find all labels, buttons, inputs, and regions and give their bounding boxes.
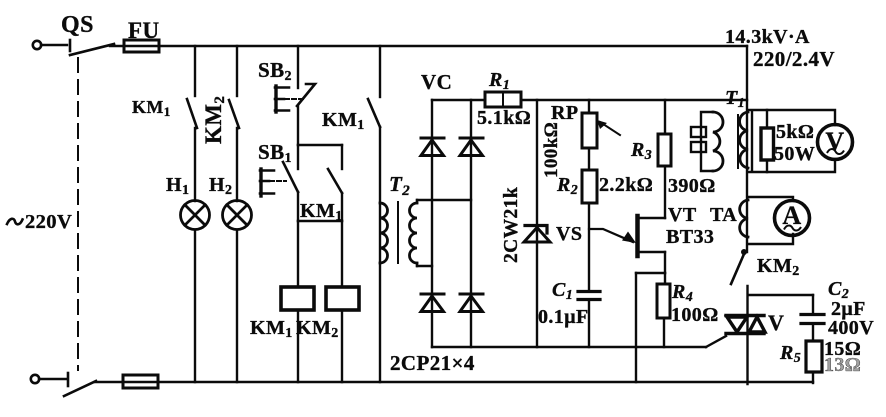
svg-text:100Ω: 100Ω bbox=[671, 304, 719, 326]
svg-text:KM1: KM1 bbox=[322, 109, 365, 133]
svg-text:R4: R4 bbox=[671, 281, 693, 305]
svg-text:2CW21k: 2CW21k bbox=[501, 187, 522, 263]
svg-text:TA: TA bbox=[710, 204, 737, 226]
svg-text:T2: T2 bbox=[389, 172, 410, 199]
svg-text:C1: C1 bbox=[552, 279, 573, 303]
svg-text:A: A bbox=[782, 201, 801, 230]
svg-text:14.3kV·A: 14.3kV·A bbox=[725, 26, 810, 48]
svg-text:50W: 50W bbox=[774, 143, 815, 165]
svg-text:220V: 220V bbox=[25, 211, 72, 233]
svg-text:BT33: BT33 bbox=[666, 226, 714, 248]
svg-text:VC: VC bbox=[421, 70, 452, 94]
svg-text:0.1μF: 0.1μF bbox=[538, 306, 589, 328]
svg-text:2.2kΩ: 2.2kΩ bbox=[599, 174, 653, 196]
svg-text:RP: RP bbox=[551, 102, 578, 124]
svg-text:400V: 400V bbox=[828, 317, 874, 339]
svg-text:VS: VS bbox=[556, 223, 582, 245]
svg-text:R5: R5 bbox=[779, 342, 801, 366]
svg-text:KM1: KM1 bbox=[250, 317, 293, 341]
svg-text:H1: H1 bbox=[166, 174, 189, 198]
svg-text:QS: QS bbox=[61, 12, 94, 38]
svg-text:R3: R3 bbox=[630, 139, 652, 163]
svg-text:SB2: SB2 bbox=[258, 58, 292, 84]
svg-text:2CP21×4: 2CP21×4 bbox=[390, 351, 475, 375]
svg-text:KM1: KM1 bbox=[300, 200, 343, 224]
svg-text:R2: R2 bbox=[556, 174, 578, 198]
svg-text:220/2.4V: 220/2.4V bbox=[753, 47, 835, 71]
svg-text:KM2: KM2 bbox=[201, 96, 228, 144]
svg-text:5kΩ: 5kΩ bbox=[776, 121, 814, 143]
svg-text:13Ω: 13Ω bbox=[824, 354, 861, 376]
svg-text:100kΩ: 100kΩ bbox=[541, 122, 562, 178]
svg-text:390Ω: 390Ω bbox=[668, 175, 716, 197]
svg-text:KM2: KM2 bbox=[296, 317, 339, 341]
svg-text:T1: T1 bbox=[725, 87, 745, 111]
svg-text:5.1kΩ: 5.1kΩ bbox=[477, 107, 531, 129]
svg-text:H2: H2 bbox=[209, 174, 232, 198]
svg-text:FU: FU bbox=[128, 18, 159, 43]
svg-text:SB1: SB1 bbox=[258, 140, 292, 166]
svg-text:V: V bbox=[768, 310, 784, 335]
svg-text:KM2: KM2 bbox=[757, 255, 800, 279]
svg-text:KM1: KM1 bbox=[132, 97, 171, 119]
svg-text:VT: VT bbox=[668, 204, 697, 226]
svg-text:R1: R1 bbox=[488, 69, 510, 93]
